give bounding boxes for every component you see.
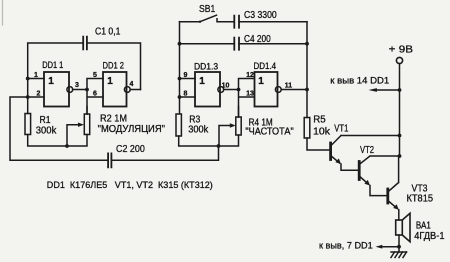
svg-text:8: 8 [184,91,188,98]
svg-text:+ 9В: + 9В [389,45,414,56]
svg-text:SB1: SB1 [199,4,215,15]
svg-text:DD1 1: DD1 1 [42,60,63,70]
svg-text:VT1: VT1 [334,124,348,135]
svg-text:11: 11 [285,83,293,90]
svg-text:к выв, 7 DD1: к выв, 7 DD1 [319,241,373,252]
gate DD1.4 [255,72,278,107]
wire C1 top link [28,43,141,90]
svg-text:1: 1 [107,76,113,87]
svg-text:9: 9 [184,72,188,79]
capacitor C4 [180,43,308,45]
svg-text:C2 200: C2 200 [116,144,145,155]
svg-text:10: 10 [222,83,230,90]
R4 wiper [219,126,231,147]
wire gate1 out to node B [73,89,87,91]
wire left rail to C2 [10,97,108,160]
svg-text:3: 3 [75,82,79,89]
potentiometer R4 [236,117,241,135]
transistor VT2 [358,162,361,180]
junction R1-R2 [65,144,69,148]
svg-text:300k: 300k [188,125,208,136]
svg-text:"МОДУЛЯЦИЯ": "МОДУЛЯЦИЯ" [98,124,166,135]
svg-text:VT2: VT2 [360,145,374,156]
svg-text:6: 6 [93,91,97,98]
svg-text:C4 200: C4 200 [244,34,271,45]
wire gate4 out [281,89,307,91]
resistor R3 [176,114,181,136]
svg-text:КТ815: КТ815 [407,194,434,205]
junction pin2 [26,95,30,99]
svg-text:R5: R5 [313,115,326,126]
capacitor C3 [234,16,239,28]
svg-text:12: 12 [246,72,254,79]
switch SB1 [180,15,235,22]
wire speaker to ground [398,235,400,252]
gate DD1.1 [44,72,69,107]
svg-text:DD1 К176ЛЕ5 VT1, VT2 К315: DD1 К176ЛЕ5 VT1, VT2 К315 (КТ312) [47,180,213,191]
R2 wiper [67,125,79,146]
wire gate2 out [130,89,140,91]
wire to pin14 arrow [374,89,400,91]
svg-text:C3 3300: C3 3300 [244,10,277,21]
svg-text:1: 1 [34,72,38,79]
scan page edge artifact [2,0,4,25]
capacitor C1 [83,37,87,50]
node D column [239,79,255,118]
junction node D [237,88,241,92]
wire node A column pins 1-2 [28,79,44,114]
svg-text:DD1.3: DD1.3 [194,61,218,71]
svg-text:к выв 14 DD1: к выв 14 DD1 [330,76,389,87]
resistor R1 [25,114,31,135]
transistor VT1 [329,143,332,160]
transistor VT3 [386,189,389,203]
power rail [399,64,401,156]
rail column C [179,22,181,114]
junction pin1 [26,77,30,81]
svg-text:2: 2 [37,91,41,98]
capacitor C2 [108,153,111,167]
wire gate3 out to node D [224,89,239,91]
junction R3-R4-C2 [217,144,221,148]
gate DD1.3 [195,72,220,107]
potentiometer R2 [84,114,89,135]
gate DD1.2 [103,72,127,107]
svg-text:5: 5 [93,72,97,79]
resistor R5 [304,118,310,139]
junction node B [85,88,89,92]
speaker BA1 [396,220,403,235]
svg-text:300k: 300k [36,126,57,137]
ground [391,251,407,253]
svg-text:ВА1: ВА1 [416,221,431,232]
rail column E [306,22,308,118]
wire to pin7 arrow [381,246,399,248]
node B column [87,79,103,115]
svg-text:13: 13 [246,91,254,98]
svg-text:R1: R1 [40,115,51,126]
svg-text:C1 0,1: C1 0,1 [95,27,120,38]
svg-text:R2 1M: R2 1M [100,113,127,124]
svg-text:1: 1 [199,76,205,87]
svg-text:4: 4 [130,81,134,88]
svg-text:"ЧАСТОТА": "ЧАСТОТА" [245,127,294,138]
svg-text:4ГДВ-1: 4ГДВ-1 [414,231,444,242]
svg-text:1: 1 [258,76,264,87]
power terminal +9V [396,57,402,63]
svg-text:10k: 10k [313,127,330,138]
svg-text:DD1.4: DD1.4 [254,61,277,71]
svg-text:DD1 2: DD1 2 [103,61,125,71]
svg-text:1: 1 [48,76,54,87]
